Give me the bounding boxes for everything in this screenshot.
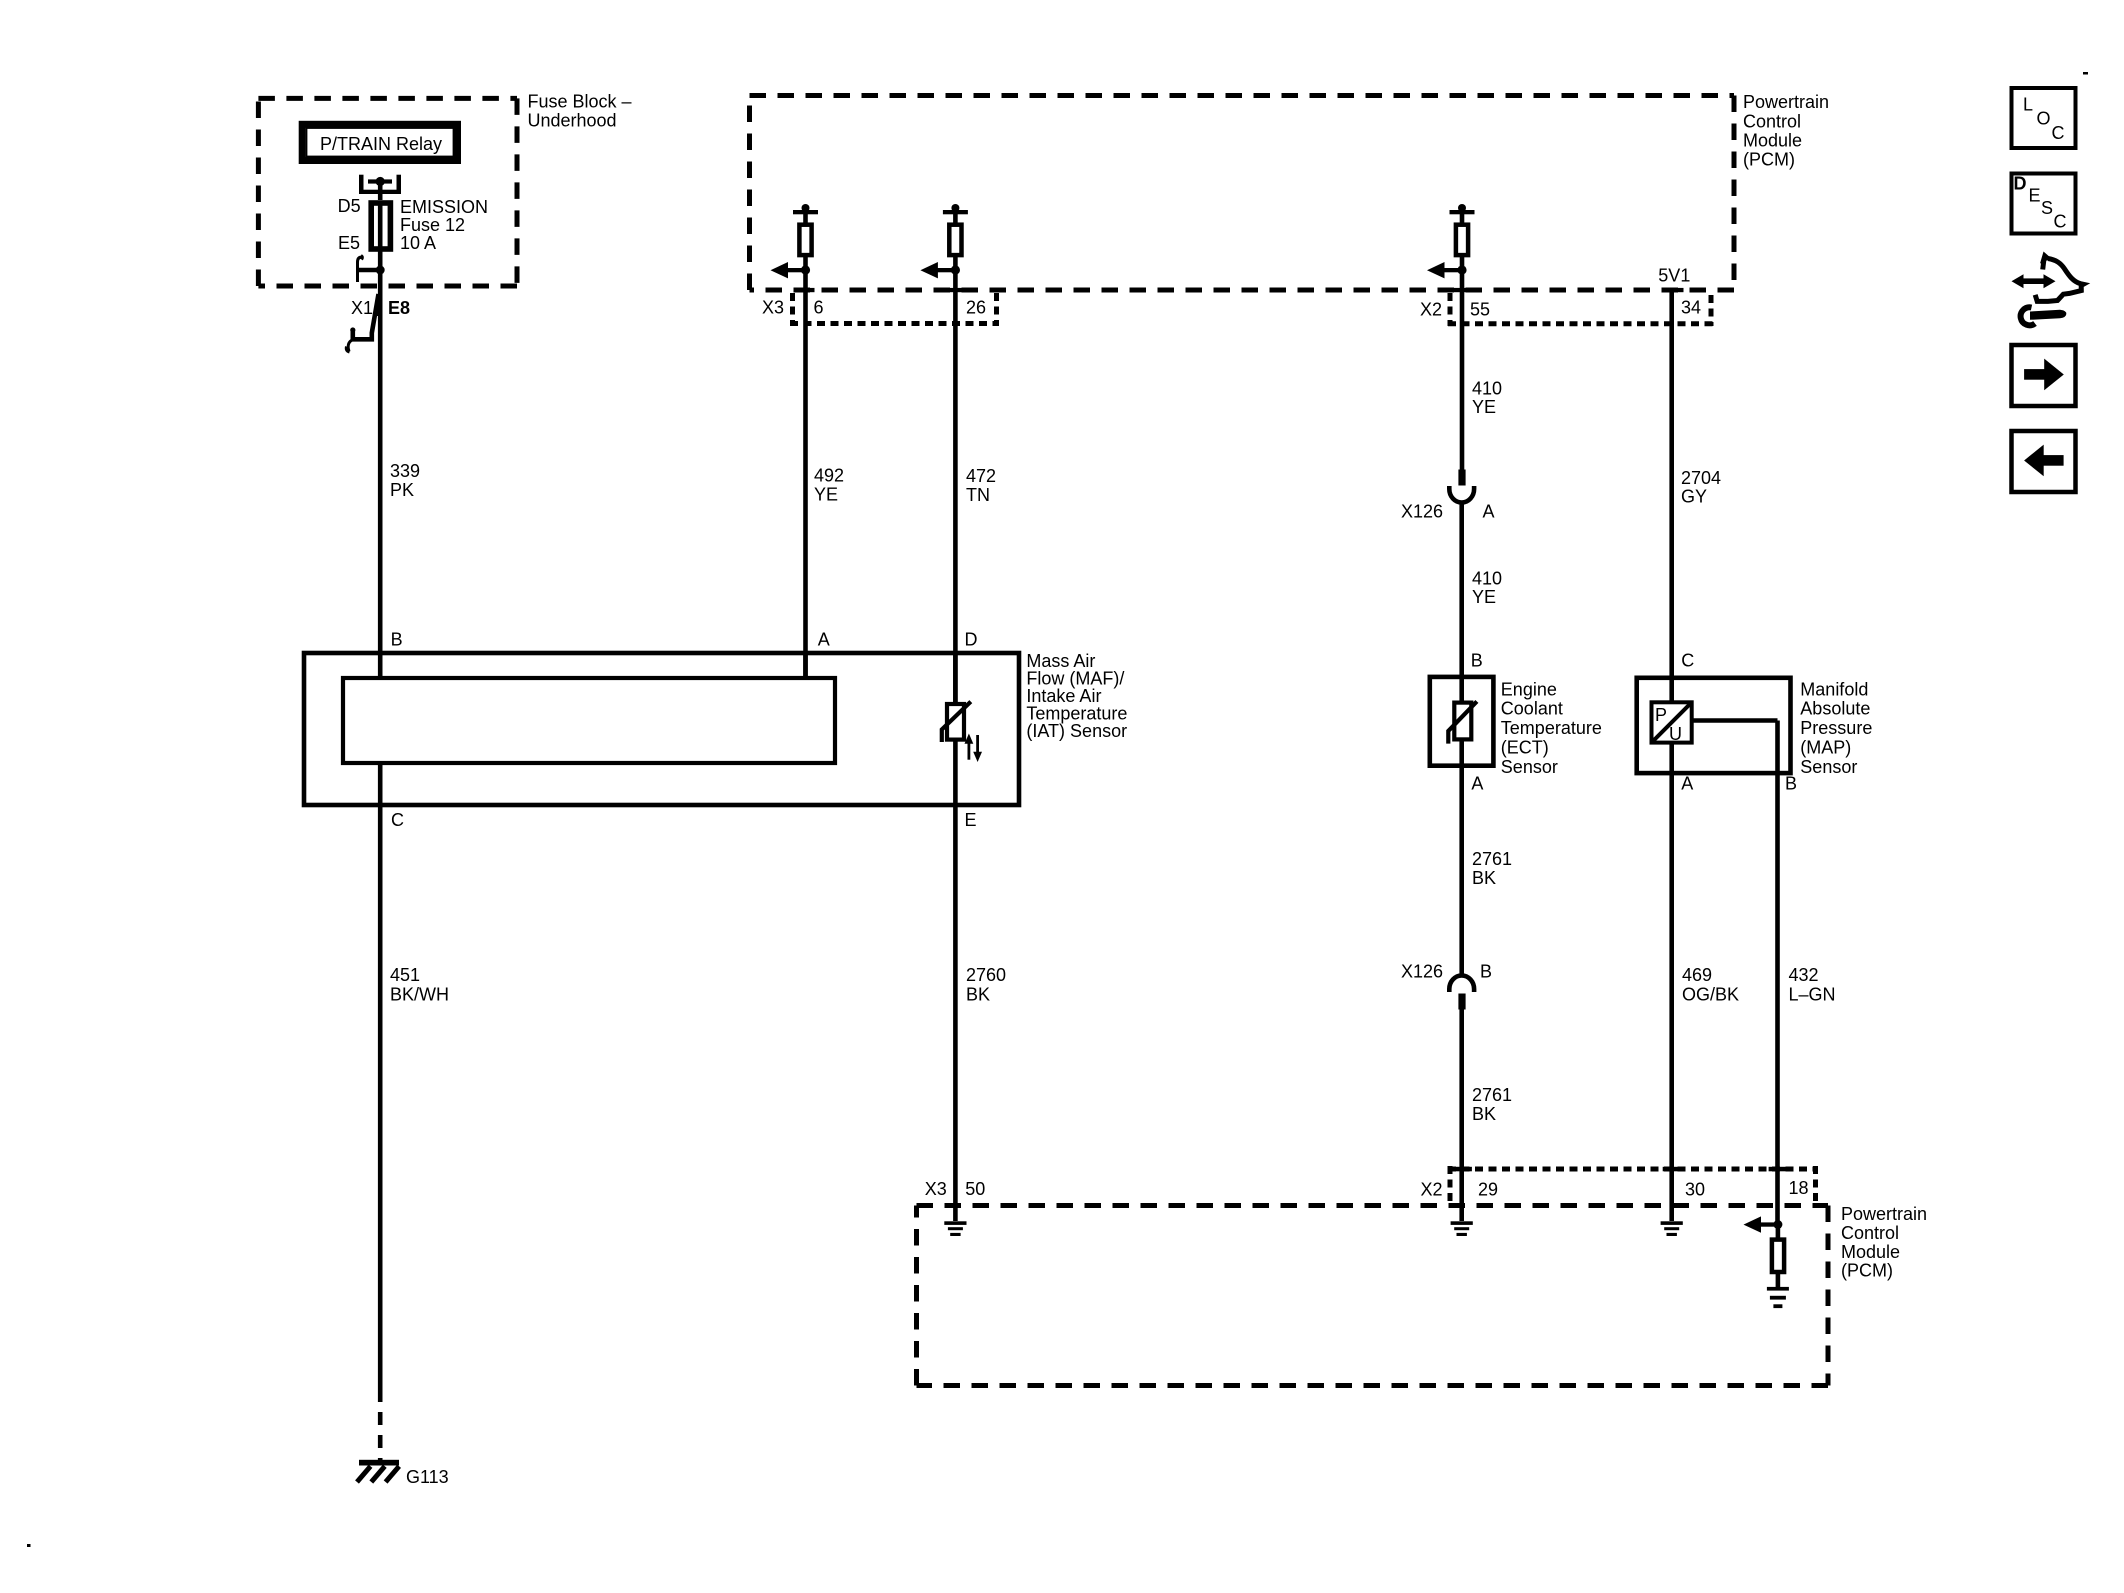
svg-text:410: 410	[1472, 569, 1502, 589]
svg-text:X1: X1	[351, 298, 373, 318]
svg-text:YE: YE	[1472, 397, 1496, 417]
svg-text:472: 472	[966, 466, 996, 486]
svg-text:18: 18	[1789, 1178, 1809, 1198]
svg-text:O: O	[2037, 109, 2051, 129]
svg-text:D: D	[2014, 174, 2027, 194]
svg-text:(IAT) Sensor: (IAT) Sensor	[1026, 721, 1127, 741]
svg-text:410: 410	[1472, 379, 1502, 399]
svg-text:OG/BK: OG/BK	[1682, 985, 1739, 1005]
svg-text:E: E	[2029, 186, 2041, 206]
svg-text:2704: 2704	[1681, 468, 1721, 488]
svg-text:339: 339	[390, 461, 420, 481]
svg-text:432: 432	[1789, 965, 1819, 985]
svg-text:2761: 2761	[1472, 1085, 1512, 1105]
svg-text:A: A	[1471, 774, 1483, 794]
svg-text:451: 451	[390, 965, 420, 985]
svg-text:(MAP): (MAP)	[1800, 737, 1851, 757]
svg-text:X3: X3	[925, 1179, 947, 1199]
svg-text:Manifold: Manifold	[1800, 679, 1868, 699]
svg-text:EMISSION: EMISSION	[400, 197, 488, 217]
svg-text:Fuse 12: Fuse 12	[400, 215, 465, 235]
svg-text:L–GN: L–GN	[1789, 985, 1836, 1005]
svg-text:E8: E8	[388, 298, 410, 318]
svg-text:30: 30	[1685, 1180, 1705, 1200]
svg-text:(ECT): (ECT)	[1501, 737, 1549, 757]
svg-text:BK: BK	[1472, 1104, 1496, 1124]
svg-text:34: 34	[1681, 298, 1701, 318]
svg-text:Engine: Engine	[1501, 679, 1557, 699]
svg-text:Module: Module	[1743, 130, 1802, 150]
svg-text:C: C	[391, 810, 404, 830]
svg-text:GY: GY	[1681, 486, 1707, 506]
svg-text:X3: X3	[762, 298, 784, 318]
svg-text:E: E	[965, 810, 977, 830]
svg-text:29: 29	[1478, 1180, 1498, 1200]
svg-text:Control: Control	[1841, 1223, 1899, 1243]
svg-text:U: U	[1669, 724, 1682, 744]
svg-text:B: B	[391, 630, 403, 650]
svg-text:Fuse Block –: Fuse Block –	[528, 92, 632, 112]
svg-text:Sensor: Sensor	[1501, 757, 1558, 777]
svg-text:(PCM): (PCM)	[1743, 150, 1795, 170]
svg-text:Pressure: Pressure	[1800, 718, 1872, 738]
svg-text:Control: Control	[1743, 111, 1801, 131]
svg-text:2761: 2761	[1472, 849, 1512, 869]
svg-text:(PCM): (PCM)	[1841, 1261, 1893, 1281]
svg-text:BK: BK	[966, 985, 990, 1005]
svg-text:E5: E5	[338, 233, 360, 253]
svg-text:B: B	[1471, 651, 1483, 671]
svg-text:A: A	[1681, 774, 1693, 794]
svg-text:PK: PK	[390, 480, 414, 500]
svg-text:D5: D5	[338, 196, 361, 216]
svg-text:55: 55	[1470, 300, 1490, 320]
svg-text:469: 469	[1682, 965, 1712, 985]
svg-text:X2: X2	[1420, 300, 1442, 320]
svg-text:10 A: 10 A	[400, 233, 436, 253]
svg-text:Powertrain: Powertrain	[1841, 1204, 1927, 1224]
svg-text:L: L	[2023, 95, 2033, 115]
svg-text:492: 492	[814, 466, 844, 486]
svg-text:P: P	[1655, 705, 1667, 725]
svg-text:TN: TN	[966, 485, 990, 505]
svg-text:X2: X2	[1421, 1180, 1443, 1200]
svg-text:S: S	[2041, 198, 2053, 218]
svg-text:B: B	[1785, 774, 1797, 794]
svg-text:A: A	[1483, 502, 1495, 522]
svg-text:Temperature: Temperature	[1501, 718, 1602, 738]
svg-text:P/TRAIN Relay: P/TRAIN Relay	[320, 134, 442, 154]
svg-text:BK: BK	[1472, 868, 1496, 888]
svg-text:2760: 2760	[966, 965, 1006, 985]
svg-text:X126: X126	[1401, 962, 1443, 982]
svg-text:YE: YE	[1472, 587, 1496, 607]
svg-text:Underhood: Underhood	[528, 111, 617, 131]
svg-text:Module: Module	[1841, 1242, 1900, 1262]
svg-text:Coolant: Coolant	[1501, 699, 1563, 719]
svg-text:D: D	[965, 630, 978, 650]
svg-text:YE: YE	[814, 485, 838, 505]
svg-text:6: 6	[814, 298, 824, 318]
svg-text:C: C	[2052, 123, 2065, 143]
svg-text:Sensor: Sensor	[1800, 757, 1857, 777]
svg-text:C: C	[1681, 651, 1694, 671]
svg-text:BK/WH: BK/WH	[390, 985, 449, 1005]
svg-text:A: A	[818, 630, 830, 650]
svg-text:5V1: 5V1	[1658, 266, 1690, 286]
svg-text:B: B	[1480, 962, 1492, 982]
svg-text:26: 26	[966, 298, 986, 318]
svg-text:X126: X126	[1401, 502, 1443, 522]
svg-text:C: C	[2054, 212, 2067, 232]
svg-text:G113: G113	[406, 1467, 449, 1487]
svg-text:50: 50	[965, 1179, 985, 1199]
svg-text:Absolute: Absolute	[1800, 699, 1870, 719]
svg-text:Powertrain: Powertrain	[1743, 92, 1829, 112]
